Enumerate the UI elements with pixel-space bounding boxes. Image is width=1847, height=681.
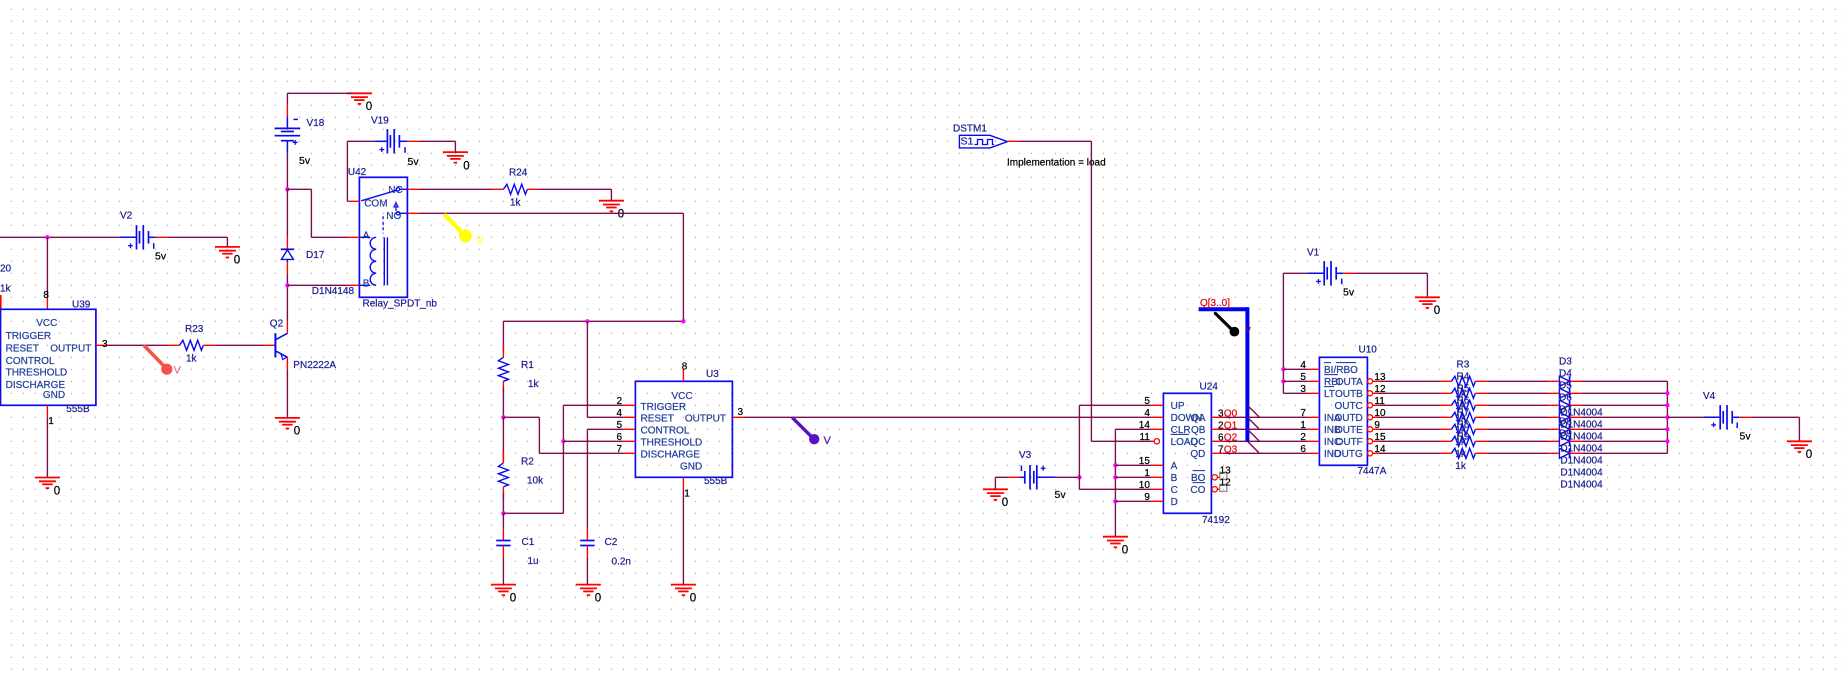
wire trigger (vert) (562, 405, 564, 513)
ground 0 below U24 (1103, 537, 1128, 557)
svg-text:R1: R1 (521, 360, 534, 371)
svg-text:U39: U39 (72, 300, 91, 311)
ground 0 below C1 (491, 585, 516, 605)
svg-text:DISCHARGE: DISCHARGE (641, 450, 701, 461)
U10 output pin 13 (1367, 372, 1386, 384)
wire junction to relay A (vert) (310, 189, 312, 237)
wire V19 minus corner vert (346, 141, 348, 201)
wire threshold to pin6 (563, 440, 623, 442)
U24 pin 4 stub (1144, 408, 1163, 419)
op-amp-style IC U39 555B timer (1, 300, 96, 416)
svg-text:0: 0 (1002, 497, 1008, 509)
probe marker (black) on bus (1215, 313, 1251, 336)
svg-text:A: A (1171, 461, 1178, 472)
svg-text:7447A: 7447A (1358, 466, 1387, 477)
wire U3 pin1 to ground (682, 489, 684, 584)
svg-text:12: 12 (1220, 478, 1232, 489)
svg-text:V2: V2 (120, 211, 133, 222)
capacitor C2 0.2n (580, 529, 631, 567)
svg-text:D7: D7 (1559, 405, 1572, 416)
wire D6 to right bus (1582, 416, 1668, 418)
svg-text:R6: R6 (1457, 395, 1470, 406)
svg-text:555B: 555B (66, 404, 90, 415)
svg-text:R5: R5 (1457, 383, 1470, 394)
U24 pin 11 LOAD stub (1140, 432, 1160, 444)
wire V1 left corner horiz (1283, 272, 1307, 274)
svg-text:5v: 5v (408, 156, 420, 168)
wire V2 to ground (167, 236, 227, 238)
transistor Q2 PN2222A (263, 319, 336, 372)
wire stub into R24 ground (610, 189, 612, 200)
wire U10 out row 1 to R (1379, 392, 1439, 394)
wire C1 to ground (502, 557, 504, 585)
svg-text:Relay_SPDT_nb: Relay_SPDT_nb (363, 299, 438, 310)
diode D6 D1N4004 (1547, 412, 1581, 422)
diode D9 D1N4004 (1547, 448, 1581, 458)
junction R2/C1/trigger (501, 511, 505, 515)
voltage probe V (red) on R23 net (145, 346, 182, 376)
svg-text:R8: R8 (1457, 419, 1470, 430)
relay U42 Relay_SPDT_nb (347, 167, 437, 309)
svg-text:1: 1 (48, 416, 54, 427)
U3 pin 7 stub (616, 444, 635, 455)
wire collector to V4 (1667, 416, 1703, 418)
wire DSTM1 to LOAD pin (1091, 440, 1151, 442)
U24 pin 10 stub (1139, 480, 1164, 491)
wire V18 plus down to junction (286, 153, 288, 189)
svg-text:OUTB: OUTB (1335, 389, 1363, 400)
junction right collector y417.3 (1665, 415, 1669, 419)
wire R2 to junction (502, 493, 504, 513)
wire relay NO to rail (vert) (682, 213, 684, 321)
wire net V2 to left edge (0, 236, 119, 238)
wire stub into V3 ground (994, 477, 996, 489)
wire relay NO to rail (horiz) (419, 212, 683, 214)
svg-text:Q[3..0]: Q[3..0] (1200, 298, 1230, 309)
svg-text:0: 0 (1122, 545, 1128, 557)
svg-text:11: 11 (1140, 432, 1151, 443)
svg-text:QA: QA (1191, 413, 1206, 424)
wire reset vert (586, 321, 588, 417)
svg-text:13: 13 (1220, 466, 1232, 477)
ground 0 right of V19 (443, 152, 470, 172)
svg-text:6: 6 (616, 432, 622, 443)
wire V4 to ground (1751, 416, 1799, 418)
svg-text:D5: D5 (1559, 381, 1572, 392)
wire U10 out row 0 to R (1379, 380, 1439, 382)
svg-text:CO: CO (1190, 485, 1205, 496)
wire U3 vcc rail (503, 320, 683, 322)
svg-text:OUTD: OUTD (1334, 413, 1362, 424)
net label Q1 (1224, 421, 1238, 432)
svg-text:0: 0 (366, 101, 372, 113)
junction U39 pin8 / V2 net (45, 235, 49, 239)
svg-text:UP: UP (1171, 401, 1185, 412)
voltage source V4 5v (1703, 391, 1751, 443)
U39 pin 1 stub (47, 405, 54, 427)
svg-text:VCC: VCC (36, 318, 57, 329)
junction right collector y393.3 (1665, 391, 1669, 395)
svg-text:QC: QC (1190, 437, 1205, 448)
wire U10 out row 2 to R (1379, 404, 1439, 406)
U24 pin 13 BO stub (1212, 466, 1231, 480)
svg-text:5v: 5v (155, 251, 167, 263)
capacitor C1 1u (496, 529, 538, 567)
wire V1 to ground (1355, 272, 1427, 274)
svg-text:C2: C2 (605, 537, 618, 548)
svg-text:0: 0 (595, 592, 601, 604)
U24 pin 9 stub (1144, 492, 1163, 503)
U10 output pin 15 (1367, 432, 1386, 444)
partial resistor R20 labels (0, 264, 12, 295)
svg-text:D: D (1171, 497, 1178, 508)
ground 0 left of V3 (983, 489, 1008, 509)
U10 pin 7 stub (1300, 408, 1319, 419)
svg-text:QB: QB (1191, 425, 1206, 436)
svg-text:0: 0 (54, 485, 60, 497)
svg-text:0: 0 (618, 209, 624, 221)
wire R6 to D6 (1487, 416, 1547, 418)
svg-text:4: 4 (616, 408, 622, 419)
svg-text:R7: R7 (1457, 407, 1470, 418)
svg-text:1k: 1k (528, 379, 540, 390)
wire junction to relay A (horiz) (287, 188, 311, 190)
wire right collector vert (1666, 381, 1668, 453)
wire R9 to D9 (1487, 452, 1547, 454)
U10 output pin 12 (1367, 384, 1386, 396)
digital stimulus DSTM1 S1 (953, 124, 1019, 148)
svg-text:OUTPUT: OUTPUT (685, 414, 726, 425)
svg-text:3: 3 (102, 339, 108, 350)
IC U3 555B timer (635, 369, 732, 487)
wire control horiz (587, 428, 623, 430)
svg-text:5: 5 (1300, 372, 1306, 383)
ground 0 below C2 (576, 585, 601, 605)
wire Q2 net (1223, 440, 1307, 442)
svg-text:D8: D8 (1559, 417, 1572, 428)
svg-text:D6: D6 (1559, 393, 1572, 404)
voltage source V18 5v (275, 104, 325, 167)
svg-text:V: V (476, 235, 484, 247)
wire D3 to right bus (1582, 380, 1668, 382)
svg-text:5: 5 (616, 420, 622, 431)
U10 output pin 14 (1367, 444, 1386, 456)
U3 pin 5 stub (616, 420, 635, 431)
U3 pin 2 stub (616, 396, 635, 407)
wire DSTM1 vert to LOAD (1090, 141, 1092, 441)
svg-text:C1: C1 (522, 537, 535, 548)
svg-text:1k: 1k (1455, 461, 1467, 472)
svg-text:10: 10 (1139, 480, 1151, 491)
svg-text:GND: GND (680, 462, 702, 473)
labels R3-R9 refs and values (1455, 359, 1469, 472)
wire V3 to junction (1055, 476, 1079, 478)
U10 output pin 9 (1367, 420, 1380, 432)
svg-text:R9: R9 (1457, 431, 1470, 442)
bus entry Q1 (1247, 417, 1259, 429)
svg-text:OUTPUT: OUTPUT (50, 344, 91, 355)
wire Q2 emitter to ground (286, 369, 288, 418)
svg-text:0: 0 (1434, 305, 1440, 317)
net label Q0 (1224, 409, 1238, 420)
wire top rail to ground (287, 92, 351, 94)
junction V1 / BI-RBO (1281, 367, 1285, 371)
wire stub into V19 ground (454, 141, 456, 152)
svg-text:5: 5 (1144, 396, 1150, 407)
wire A horiz (1115, 464, 1151, 466)
svg-text:20: 20 (0, 264, 12, 275)
ground 0 below U3 (671, 585, 696, 605)
svg-text:7: 7 (1300, 408, 1306, 419)
svg-text:D1N4148: D1N4148 (312, 286, 355, 297)
junction V18/D17/relay-A node (285, 187, 289, 191)
wire Q0 net (1223, 416, 1307, 418)
resistor R6 1k (1439, 412, 1487, 422)
svg-text:OUTG: OUTG (1334, 449, 1363, 460)
junction R1/R2/discharge (501, 415, 505, 419)
wire junction down to C1 (502, 513, 504, 529)
diode D3 D1N4004 (1547, 376, 1581, 386)
U10 pin 6 stub (1300, 444, 1319, 455)
U24 output pin 7 stub (1211, 445, 1224, 456)
wire U10 out row 6 to R (1379, 452, 1439, 454)
U3 pin3 stub (732, 407, 744, 418)
junction trigger/threshold (561, 439, 565, 443)
wire V3 node up (1078, 405, 1080, 477)
wire gnd net vert (1114, 429, 1116, 536)
bus label Q[3..0] (1200, 298, 1230, 309)
voltage probe V (yellow) on relay NO net (446, 216, 485, 247)
svg-text:10k: 10k (527, 476, 544, 487)
svg-text:1k: 1k (0, 284, 12, 295)
wire U10 out row 3 to R (1379, 416, 1439, 418)
labels D3-D9 refs and values (1559, 357, 1603, 491)
svg-text:V19: V19 (371, 115, 389, 126)
svg-text:4: 4 (1144, 408, 1150, 419)
svg-text:0: 0 (1806, 449, 1812, 461)
svg-text:0: 0 (463, 161, 469, 173)
svg-text:2: 2 (616, 396, 622, 407)
svg-text:R24: R24 (509, 167, 528, 178)
wire CLR horiz (1115, 428, 1151, 430)
svg-text:D17: D17 (306, 250, 325, 261)
svg-text:5v: 5v (1343, 287, 1355, 299)
svg-text:1k: 1k (510, 198, 522, 209)
wire V18 minus to top rail (286, 93, 288, 104)
resistor R1 1k (498, 345, 539, 393)
resistor R3 1k (1439, 376, 1487, 386)
svg-text:7: 7 (616, 444, 622, 455)
U10 pin 5 stub (1300, 372, 1319, 383)
wire U10 out row 5 to R (1379, 440, 1439, 442)
svg-text:U10: U10 (1359, 345, 1378, 356)
svg-text:VCC: VCC (672, 391, 693, 402)
U24 pin 14 stub (1139, 420, 1164, 431)
svg-text:Q2: Q2 (270, 319, 284, 330)
wire U10 out row 4 to R (1379, 428, 1439, 430)
svg-text:15: 15 (1139, 456, 1151, 467)
svg-text:0: 0 (234, 255, 240, 267)
svg-text:U42: U42 (348, 167, 367, 178)
junction gnd net / B (1113, 475, 1117, 479)
svg-text:D1N4004: D1N4004 (1560, 456, 1603, 467)
ground 0 right of V2 (215, 247, 240, 267)
U10 pin 3 stub (1300, 384, 1319, 395)
svg-text:1: 1 (684, 489, 690, 500)
svg-text:OUTC: OUTC (1334, 401, 1362, 412)
svg-text:CONTROL: CONTROL (641, 426, 690, 437)
svg-text:0: 0 (294, 426, 300, 438)
wire U39 pin1 to ground (46, 417, 48, 477)
svg-text:DSTM1: DSTM1 (953, 124, 987, 135)
svg-text:RESET: RESET (641, 414, 674, 425)
svg-text:555B: 555B (704, 476, 728, 487)
IC U24 74192 counter (1163, 382, 1230, 527)
net label Q2 (1224, 433, 1238, 444)
ground 0 below R24 (599, 201, 624, 221)
U24 output pin 3 stub (1211, 409, 1224, 420)
svg-text:OUTF: OUTF (1336, 437, 1363, 448)
bus entry Q0 (1247, 405, 1259, 417)
wire junction to D17 (286, 189, 288, 237)
U39 pin 3 stub (96, 339, 108, 350)
U24 pin 1 stub (1144, 468, 1163, 479)
svg-text:14: 14 (1139, 420, 1151, 431)
wire V3 node to UP pin (1079, 404, 1151, 406)
diode D7 D1N4004 (1547, 424, 1581, 434)
svg-text:PN2222A: PN2222A (293, 360, 336, 371)
U10 pin 2 stub (1300, 432, 1319, 443)
svg-text:4: 4 (1300, 360, 1306, 371)
junction rail / reset branch (585, 319, 589, 323)
svg-text:5v: 5v (299, 155, 311, 167)
svg-text:CONTROL: CONTROL (6, 356, 55, 367)
diode D17 D1N4148 (281, 237, 355, 297)
wire rail down to R1 (502, 321, 504, 351)
svg-text:R3: R3 (1457, 359, 1470, 370)
resistor R9 1k (1439, 448, 1487, 458)
wire V3 ground horiz (995, 476, 1007, 478)
wire relay NC to R24 (419, 188, 491, 190)
wire D4 to right bus (1582, 392, 1668, 394)
wire discharge (horiz from R1/R2) (503, 416, 539, 418)
svg-text:R4: R4 (1457, 371, 1470, 382)
resistor R8 1k (1439, 436, 1487, 446)
svg-text:OUTA: OUTA (1336, 377, 1363, 388)
svg-text:D4: D4 (1559, 369, 1572, 380)
wire U3 output to U24 DOWN (744, 416, 1151, 418)
svg-text:U24: U24 (1200, 382, 1219, 393)
svg-text:6: 6 (1300, 444, 1306, 455)
svg-text:8: 8 (682, 362, 688, 373)
wire D8 to right bus (1582, 440, 1668, 442)
resistor R2 10k (498, 451, 544, 499)
svg-text:0.2n: 0.2n (612, 557, 631, 568)
voltage source V2 5v (119, 211, 167, 263)
svg-text:R23: R23 (185, 324, 204, 335)
wire V1 node vert (1282, 273, 1284, 393)
U10 pin 4 stub (1300, 360, 1319, 371)
U24 output pin 6 stub (1211, 433, 1224, 444)
wire D7 to right bus (1582, 428, 1668, 430)
wire stub into V1 ground (1426, 273, 1428, 297)
svg-text:OUTE: OUTE (1335, 425, 1363, 436)
svg-text:QD: QD (1190, 449, 1205, 460)
svg-text:C: C (1171, 485, 1178, 496)
svg-text:1u: 1u (528, 556, 539, 567)
ground 0 below U39 (35, 478, 60, 498)
svg-text:1: 1 (1144, 468, 1150, 479)
junction rail / pin8 branch (681, 319, 685, 323)
wire Q3 net (1223, 452, 1307, 454)
svg-text:THRESHOLD: THRESHOLD (641, 438, 703, 449)
svg-text:5v: 5v (1740, 431, 1752, 443)
wire V19 to right ground (419, 140, 455, 142)
svg-text:D1N4004: D1N4004 (1560, 444, 1603, 455)
svg-text:D9: D9 (1559, 429, 1572, 440)
wire to U10 pin4 (1283, 368, 1307, 370)
junction gnd net / D (1113, 499, 1117, 503)
wire trigger (horiz from R2/C1) (503, 512, 563, 514)
U3 pin8 stub (682, 362, 688, 382)
junction gnd net / A (1113, 463, 1117, 467)
svg-text:1k: 1k (186, 354, 198, 365)
wire V3 node to C pin (1079, 488, 1151, 490)
svg-text:GND: GND (43, 390, 65, 401)
U3 pin1 stub (683, 477, 690, 499)
ground 0 below Q2 (275, 418, 300, 438)
wire D horiz (1115, 500, 1151, 502)
svg-text:THRESHOLD: THRESHOLD (6, 367, 68, 378)
junction V1 / RBI (1281, 379, 1285, 383)
net label Q3 (1224, 445, 1238, 456)
wire C2 to ground (586, 557, 588, 585)
wire V3 node down (1078, 477, 1080, 489)
wire R8 to D8 (1487, 440, 1547, 442)
svg-text:COM: COM (364, 198, 387, 209)
U3 pin 6 stub (616, 432, 635, 443)
wire junction to relay A (horiz2) (311, 236, 347, 238)
wire V19 left lead (347, 140, 374, 142)
U10 output pin 10 (1367, 408, 1386, 420)
svg-text:5v: 5v (1055, 489, 1067, 501)
svg-text:V: V (824, 435, 832, 447)
wire R5 to D5 (1487, 404, 1547, 406)
svg-text:B: B (363, 278, 370, 289)
wire R24 to ground (539, 188, 611, 190)
U24 output pin 2 stub (1211, 421, 1224, 432)
svg-text:0: 0 (690, 592, 696, 604)
U10 output pin 11 (1367, 396, 1385, 408)
voltage source V3 5v (1007, 450, 1066, 501)
wire to U10 pin5 (1283, 380, 1307, 382)
wire D9 to right bus (1582, 452, 1668, 454)
wire R3 to D3 (1487, 380, 1547, 382)
svg-text:LT: LT (1324, 389, 1335, 400)
wire R23 to Q2 base (215, 344, 263, 346)
voltage source V1 5v (1307, 248, 1355, 299)
U24 pin 15 stub (1139, 456, 1164, 467)
svg-text:D1N4004: D1N4004 (1560, 468, 1603, 479)
svg-text:V: V (174, 365, 182, 377)
svg-text:TRIGGER: TRIGGER (641, 402, 687, 413)
diode D4 D1N4004 (1547, 388, 1581, 398)
junction D17/relay-B/Q2 node (285, 283, 289, 287)
wire stub into V4 ground (1798, 417, 1800, 441)
ground 0 top (V18) (347, 93, 372, 113)
resistor R24 1k (491, 167, 539, 208)
voltage source V19 5v (371, 115, 419, 168)
